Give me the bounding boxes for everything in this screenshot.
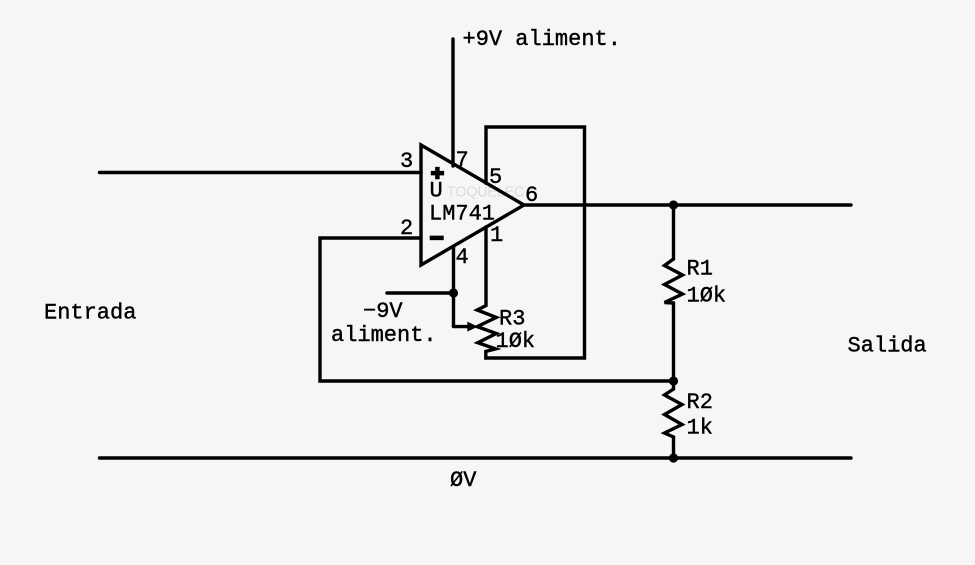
wire R2 to 0V rail: [672, 437, 675, 458]
op-amp U LM741 triangle: [421, 145, 524, 265]
wire 0V rail: [100, 456, 852, 459]
svg-text:1Øk: 1Øk: [496, 329, 536, 354]
node 0V junction: [669, 453, 678, 462]
node feedback junction: [669, 376, 678, 385]
wire pin 4: [452, 247, 455, 327]
resistor R1 10k: [665, 259, 683, 303]
wire pin 1: [484, 227, 487, 306]
svg-text:3: 3: [400, 149, 413, 174]
svg-text:+9V aliment.: +9V aliment.: [463, 27, 621, 52]
svg-text:1k: 1k: [687, 416, 713, 441]
svg-text:1Øk: 1Øk: [687, 284, 727, 309]
wire R1 to feedback node: [672, 303, 675, 381]
node pin4/-9V junction: [449, 288, 458, 297]
svg-text:4: 4: [456, 245, 469, 270]
svg-text:R2: R2: [687, 390, 713, 415]
wire feedback node to R2: [672, 381, 675, 389]
wire output (pin 6 to Salida): [524, 203, 851, 206]
wiper arrowhead: [467, 322, 478, 332]
svg-text:LM741: LM741: [429, 202, 495, 227]
svg-text:R1: R1: [687, 257, 713, 282]
svg-text:2: 2: [400, 216, 413, 241]
svg-text:1: 1: [490, 223, 503, 248]
wire pin 7 supply: [451, 39, 454, 166]
svg-text:R3: R3: [499, 307, 525, 332]
wire output to R1: [672, 205, 675, 259]
svg-text:ØV: ØV: [450, 468, 477, 493]
svg-text:7: 7: [456, 148, 469, 173]
svg-text:6: 6: [525, 183, 538, 208]
wire pin 5 and offset-null box: [486, 127, 585, 358]
svg-text:−9V: −9V: [363, 299, 403, 324]
wire pin 2 feedback: [320, 238, 674, 381]
op-amp minus input mark: [430, 236, 444, 241]
svg-text:U: U: [430, 179, 443, 204]
svg-text:Entrada: Entrada: [44, 301, 136, 326]
wire input (Entrada to pin 3): [100, 171, 422, 174]
node output junction: [669, 200, 678, 209]
svg-text:5: 5: [489, 165, 502, 190]
wire wiper to R3: [454, 325, 469, 328]
svg-text:aliment.: aliment.: [331, 323, 437, 348]
resistor R2 1k: [665, 389, 683, 437]
op-amp plus input mark: [431, 167, 444, 179]
resistor R3 10k (potentiometer): [477, 306, 496, 352]
svg-text:Salida: Salida: [848, 333, 927, 358]
wire -9V supply: [387, 291, 454, 294]
